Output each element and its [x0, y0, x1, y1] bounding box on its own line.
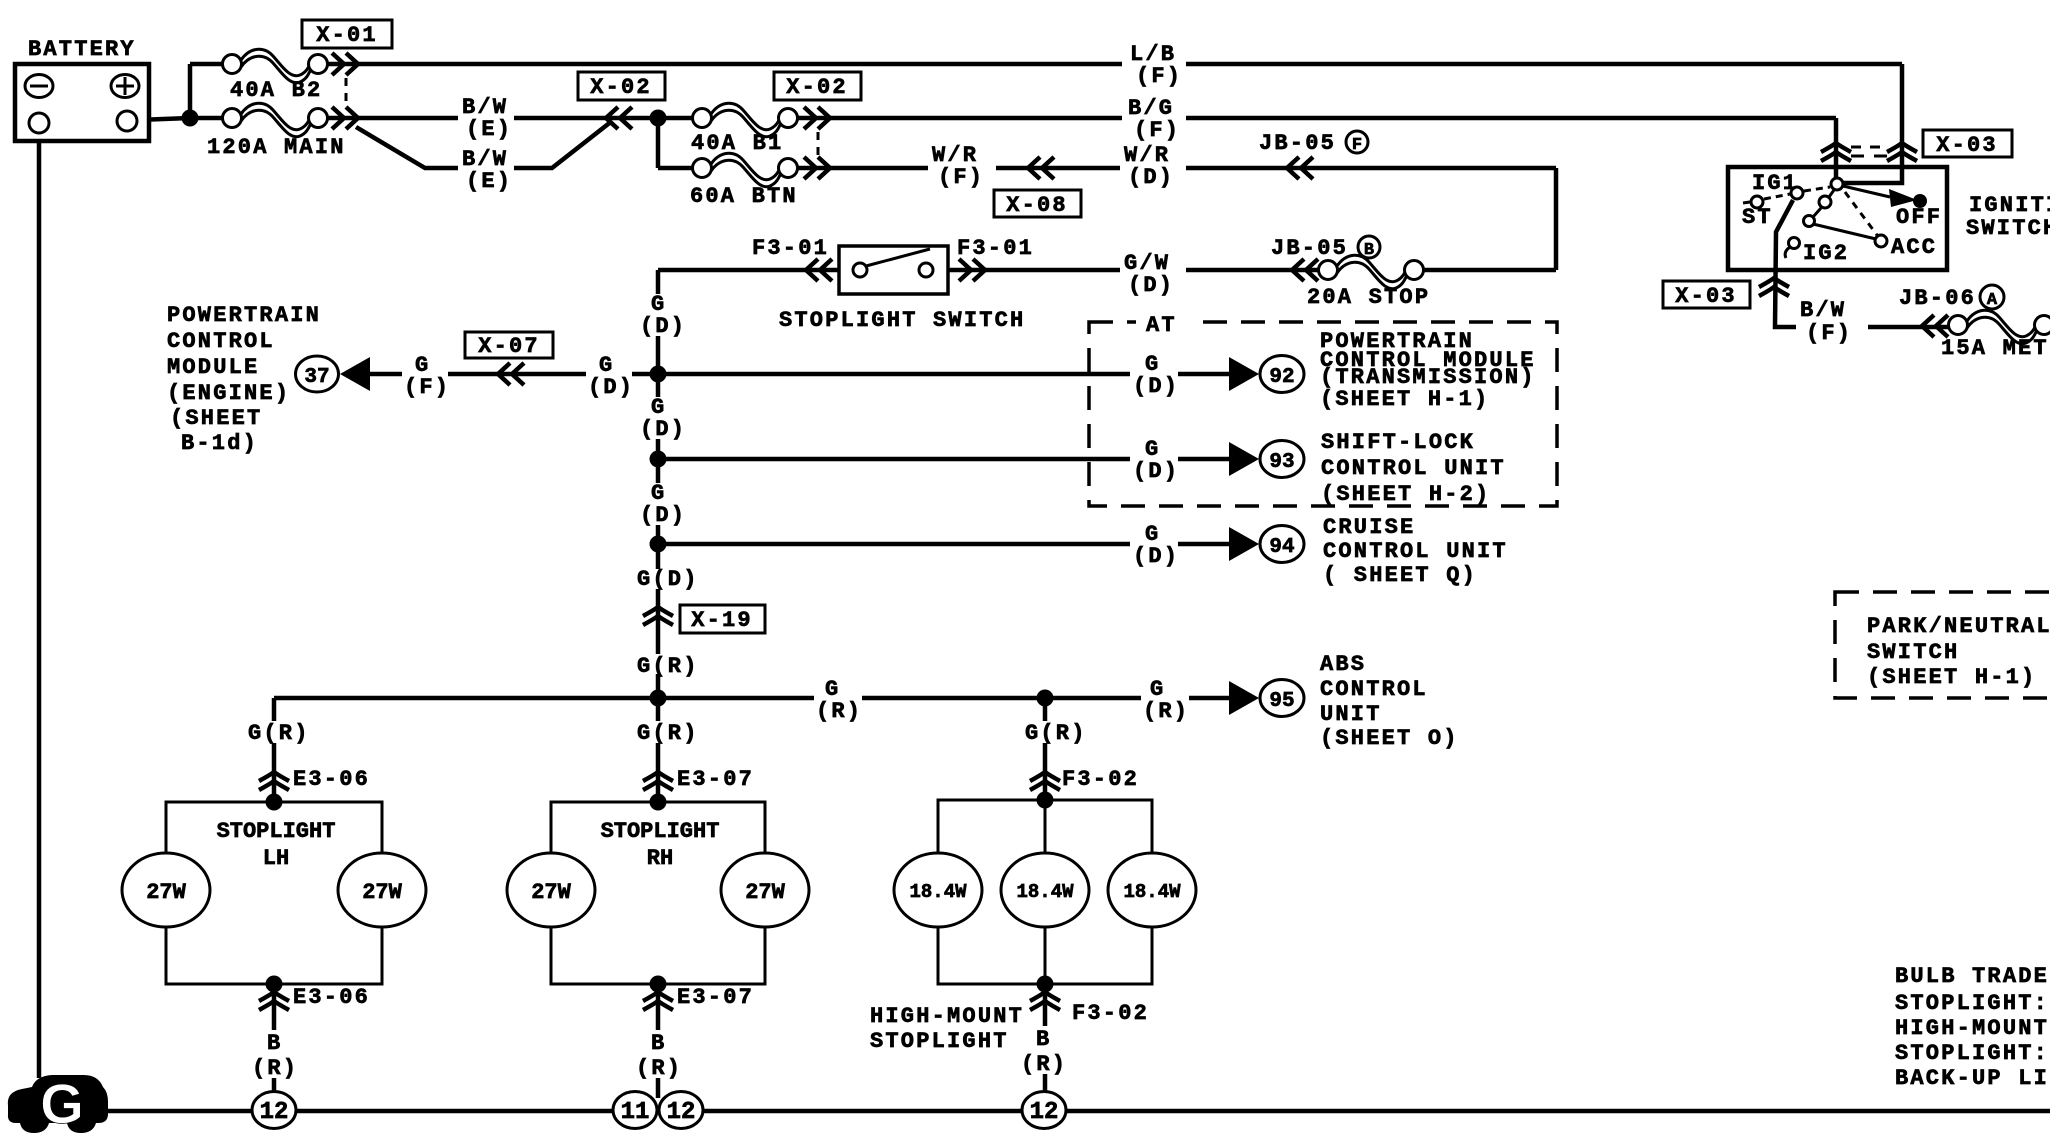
- wire: row A (L/B): [190, 62, 224, 67]
- svg-text:92: 92: [1269, 366, 1294, 389]
- connector X-02 label left: [578, 72, 665, 100]
- connector JB-06 A: [1899, 285, 2004, 337]
- bulb trade note: [1895, 964, 2049, 1091]
- svg-text:27W: 27W: [362, 880, 402, 905]
- junction G(R) row 95 center: [650, 690, 667, 707]
- connector X-03 chevron bottom: [1759, 278, 1789, 296]
- node B (R) x1045: [1018, 1026, 1070, 1077]
- svg-text:(F): (F): [404, 375, 450, 400]
- svg-text:G(D): G(D): [637, 567, 699, 592]
- connector X-08 chevron: [1028, 157, 1054, 179]
- svg-text:SWITCH: SWITCH: [1966, 216, 2050, 241]
- svg-text:X-02: X-02: [590, 75, 652, 100]
- svg-text:G(R): G(R): [1025, 721, 1087, 746]
- wire: vertical junction to 60A BTN row: [656, 118, 661, 168]
- wire: left branch down to stoplight LH: [272, 698, 277, 802]
- connector JB-05 F chevron: [1259, 131, 1368, 179]
- svg-text:HIGH-MOUNT: HIGH-MOUNT: [870, 1004, 1024, 1029]
- svg-text:95: 95: [1269, 690, 1294, 713]
- svg-text:12: 12: [667, 1099, 696, 1126]
- svg-text:STOPLIGHT:: STOPLIGHT:: [1895, 1041, 2049, 1066]
- wire: ignition IG1 lever down to X-03 and B/W row: [1775, 200, 1798, 327]
- svg-text:G(R): G(R): [637, 721, 699, 746]
- OFF contact with arrow: [1843, 186, 1890, 197]
- wire: contact M2 to ACC: [1813, 224, 1876, 239]
- svg-text:STOPLIGHT:: STOPLIGHT:: [1895, 991, 2049, 1016]
- node B/W (F) ignition: [1796, 298, 1868, 346]
- svg-text:SWITCH: SWITCH: [1867, 640, 1959, 665]
- junction high-mount top: [1037, 792, 1054, 809]
- terminal IG1: [1791, 187, 1803, 199]
- svg-text:G(R): G(R): [637, 654, 699, 679]
- svg-text:X-19: X-19: [691, 608, 753, 633]
- junction G(R) high-mount branch: [1037, 690, 1054, 707]
- wire: L/B vertical to ignition switch: [1843, 64, 1902, 183]
- svg-text:F3-01: F3-01: [957, 236, 1034, 261]
- svg-text:(SHEET: (SHEET: [170, 406, 262, 431]
- fuse 40A B2: [223, 49, 328, 103]
- svg-text:X-01: X-01: [316, 23, 378, 48]
- junction stoplight RH top: [650, 794, 667, 811]
- connector E3-06 upper: [259, 767, 370, 792]
- svg-text:(SHEET H-1): (SHEET H-1): [1867, 665, 2036, 690]
- wire: row C (60A BTN - W/R): [658, 166, 694, 171]
- ground terminals 11 12 (RH): [613, 1092, 657, 1129]
- node G (D) x658 seg1: [636, 292, 686, 339]
- svg-text:G: G: [40, 1072, 84, 1135]
- node G (D) before 93: [1130, 437, 1179, 484]
- svg-text:27W: 27W: [745, 880, 785, 905]
- terminal 92 PCM transmission: [1229, 329, 1536, 412]
- svg-text:18.4W: 18.4W: [1123, 881, 1181, 903]
- svg-text:(D): (D): [640, 314, 686, 339]
- svg-text:(F): (F): [1134, 118, 1180, 143]
- junction at battery feed: [182, 110, 199, 127]
- svg-text:(D): (D): [1133, 374, 1179, 399]
- wire: branch up to 40A B2 row: [188, 64, 193, 118]
- junction G(D) row 94: [650, 536, 667, 553]
- svg-text:(R): (R): [816, 699, 862, 724]
- connector X-02 label right: [774, 72, 861, 100]
- svg-text:( SHEET Q): ( SHEET Q): [1323, 563, 1477, 588]
- svg-text:94: 94: [1269, 536, 1294, 559]
- svg-text:BACK-UP LI: BACK-UP LI: [1895, 1066, 2049, 1091]
- svg-text:BATTERY: BATTERY: [28, 37, 136, 62]
- svg-text:120A MAIN: 120A MAIN: [207, 135, 346, 160]
- svg-text:X-03: X-03: [1675, 284, 1737, 309]
- svg-text:(SHEET H-1): (SHEET H-1): [1320, 387, 1489, 412]
- stoplight RH box: [507, 802, 809, 984]
- svg-text:20A STOP: 20A STOP: [1307, 285, 1430, 310]
- svg-text:(F): (F): [938, 165, 984, 190]
- svg-text:HIGH-MOUNT: HIGH-MOUNT: [1895, 1016, 2049, 1041]
- svg-text:X-07: X-07: [478, 334, 540, 359]
- svg-text:(R): (R): [1021, 1052, 1067, 1077]
- svg-text:CONTROL UNIT: CONTROL UNIT: [1323, 539, 1508, 564]
- svg-text:18.4W: 18.4W: [909, 881, 967, 903]
- svg-text:CRUISE: CRUISE: [1323, 515, 1415, 540]
- connector X-03 label top: [1923, 130, 2012, 158]
- wire: right branch down to high-mount: [1043, 698, 1048, 800]
- svg-text:B/W: B/W: [1800, 298, 1846, 323]
- svg-text:27W: 27W: [531, 880, 571, 905]
- node B (R) x658: [632, 1030, 684, 1081]
- fuse 20A STOP: [1307, 255, 1430, 310]
- junction at 40A B1 / 60A BTN split: [650, 110, 667, 127]
- node G (D) row 374: [586, 353, 634, 400]
- node L/B (F): [1124, 42, 1186, 89]
- svg-text:18.4W: 18.4W: [1016, 881, 1074, 903]
- node G(R) x658 lower: [634, 721, 702, 746]
- stoplight LH box: [122, 802, 426, 984]
- svg-text:SHIFT-LOCK: SHIFT-LOCK: [1321, 430, 1475, 455]
- svg-text:JB-05: JB-05: [1271, 236, 1348, 261]
- ground G car symbol: [8, 1072, 108, 1135]
- connector JB-05 B chevron: [1271, 236, 1380, 281]
- svg-text:AT: AT: [1146, 313, 1177, 338]
- dashed common-ACC: [1845, 192, 1877, 235]
- dashed ST-IG1: [1764, 194, 1790, 199]
- fuse 120A MAIN: [207, 103, 346, 160]
- fuse 60A BTN: [690, 153, 798, 209]
- svg-text:12: 12: [260, 1099, 289, 1126]
- svg-text:11: 11: [621, 1099, 650, 1126]
- junction high-mount bottom: [1037, 976, 1054, 993]
- wire: row 544 (94): [658, 542, 1229, 547]
- node G(D) above X-19: [634, 567, 702, 592]
- svg-text:B: B: [1364, 241, 1374, 260]
- terminal 94 cruise: [1229, 515, 1508, 588]
- svg-text:MODULE: MODULE: [167, 355, 259, 380]
- svg-text:40A B1: 40A B1: [691, 131, 783, 156]
- svg-text:F3-02: F3-02: [1072, 1001, 1149, 1026]
- connector E3-07 upper: [643, 767, 754, 792]
- svg-text:(SHEET O): (SHEET O): [1320, 726, 1459, 751]
- svg-text:(E): (E): [466, 117, 512, 142]
- svg-text:STOPLIGHT: STOPLIGHT: [870, 1029, 1009, 1054]
- connector X-03 label bottom: [1663, 281, 1750, 309]
- svg-text:UNIT: UNIT: [1320, 702, 1382, 727]
- svg-text:B-1d): B-1d): [181, 431, 258, 456]
- svg-text:A: A: [1987, 291, 1998, 310]
- wire: G/W row (stoplight switch row): [1421, 268, 1556, 273]
- fuse 15A METER: [1941, 310, 2050, 361]
- svg-text:(R): (R): [636, 1056, 682, 1081]
- svg-text:93: 93: [1269, 451, 1294, 474]
- node G (R) row698 left: [814, 677, 862, 724]
- node G(R) below X-19: [634, 654, 702, 679]
- node G (F) row 374: [402, 353, 450, 400]
- svg-text:F3-01: F3-01: [752, 236, 829, 261]
- wire: row B (B/W E - 40A B1 - B/G): [190, 116, 224, 121]
- svg-text:F3-02: F3-02: [1062, 767, 1139, 792]
- high-mount stoplight box: [870, 800, 1196, 1054]
- connector X-01 chevrons: [332, 53, 358, 129]
- AT dashed box: [1089, 312, 1557, 506]
- svg-text:(D): (D): [640, 503, 686, 528]
- node B/W (E) lower: [458, 147, 514, 194]
- wire: B/W (F) row to 15A METER: [1866, 325, 1948, 330]
- svg-text:F: F: [1352, 136, 1362, 155]
- svg-text:(D): (D): [640, 417, 686, 442]
- svg-text:STOPLIGHT: STOPLIGHT: [217, 819, 336, 844]
- svg-text:(D): (D): [588, 375, 634, 400]
- wire: row 698 (G(R) / ABS 95): [274, 696, 1229, 701]
- connector X-19 label: [680, 605, 765, 633]
- svg-text:E3-07: E3-07: [677, 767, 754, 792]
- svg-text:(R): (R): [252, 1056, 298, 1081]
- node G/W (D): [1122, 251, 1184, 298]
- wire: battery negative vertical: [37, 133, 42, 1078]
- junction stoplight LH top: [266, 794, 283, 811]
- node G (R) row698 right: [1141, 677, 1189, 724]
- svg-text:POWERTRAIN: POWERTRAIN: [167, 303, 321, 328]
- svg-text:40A B2: 40A B2: [230, 78, 322, 103]
- node G (D) before 92: [1130, 352, 1179, 399]
- svg-text:15A METE: 15A METE: [1941, 336, 2050, 361]
- svg-text:PARK/NEUTRAL: PARK/NEUTRAL: [1867, 614, 2050, 639]
- label IGNITION SWITCH: [1966, 193, 2050, 241]
- svg-text:STOPLIGHT SWITCH: STOPLIGHT SWITCH: [779, 308, 1025, 333]
- ground terminal 12 (LH): [252, 1092, 296, 1129]
- mid contact 2: [1804, 216, 1815, 227]
- terminal 93 shift-lock: [1229, 430, 1506, 507]
- connector F3-02 upper: [1030, 767, 1139, 792]
- wire: row 459 (93): [658, 457, 1229, 462]
- svg-text:27W: 27W: [146, 880, 186, 905]
- park/neutral switch dashed box: [1835, 592, 2050, 698]
- connector E3-07 lower: [643, 985, 754, 1010]
- node B (R) x274: [248, 1030, 300, 1081]
- svg-text:(D): (D): [1133, 459, 1179, 484]
- svg-text:E3-06: E3-06: [293, 767, 370, 792]
- node G(R) x1045: [1022, 721, 1090, 746]
- connector X-07 chevron: [498, 363, 524, 385]
- svg-text:(SHEET H-2): (SHEET H-2): [1321, 482, 1490, 507]
- junction G(D) row 37/92: [650, 366, 667, 383]
- svg-text:CONTROL UNIT: CONTROL UNIT: [1321, 456, 1506, 481]
- svg-text:(F): (F): [1806, 321, 1852, 346]
- svg-text:(R): (R): [1143, 699, 1189, 724]
- svg-text:STOPLIGHT: STOPLIGHT: [601, 819, 720, 844]
- node W/R (D): [1122, 143, 1184, 190]
- node B/G (F): [1124, 96, 1186, 143]
- junction stoplight RH bottom: [650, 976, 667, 993]
- svg-text:(ENGINE): (ENGINE): [167, 381, 290, 406]
- wire: vertical main G(D) branch x=658: [656, 270, 661, 802]
- svg-text:ST: ST: [1742, 205, 1773, 230]
- connector X-19 chevron: [643, 607, 673, 625]
- svg-text:E3-07: E3-07: [677, 985, 754, 1010]
- terminal 95 ABS: [1229, 652, 1459, 751]
- svg-text:CONTROL: CONTROL: [167, 329, 275, 354]
- node G (D) x658 seg3: [636, 481, 686, 528]
- svg-text:JB-06: JB-06: [1899, 286, 1976, 311]
- node B/W (E) upper: [458, 95, 514, 142]
- terminal IG2: [1789, 238, 1800, 249]
- svg-text:LH: LH: [263, 846, 289, 871]
- stoplight switch F3-01: [752, 236, 1034, 333]
- node G(R) x274: [245, 721, 313, 746]
- connector X-01 label: [302, 20, 392, 48]
- node W/R (F): [930, 143, 994, 190]
- connector F3-02 lower: [1030, 992, 1149, 1026]
- wire: B/W (E) lower path diagonals: [356, 121, 612, 168]
- svg-text:ACC: ACC: [1891, 235, 1937, 260]
- wire: ground bus: [100, 1109, 2050, 1114]
- svg-text:CONTROL: CONTROL: [1320, 677, 1428, 702]
- wire: row 374 (37 / 92): [370, 372, 1229, 377]
- svg-text:G(R): G(R): [248, 721, 310, 746]
- svg-text:JB-05: JB-05: [1259, 131, 1336, 156]
- svg-text:X-08: X-08: [1006, 193, 1068, 218]
- dashed IG1-common: [1804, 187, 1830, 191]
- svg-text:(D): (D): [1128, 165, 1174, 190]
- svg-text:(D): (D): [1133, 544, 1179, 569]
- svg-text:60A BTN: 60A BTN: [690, 184, 798, 209]
- svg-text:RH: RH: [647, 846, 673, 871]
- common terminal: [1831, 178, 1843, 190]
- mid contact 1: [1819, 196, 1831, 208]
- connector X-07 label: [465, 332, 553, 359]
- svg-text:(D): (D): [1128, 273, 1174, 298]
- battery: [15, 37, 149, 141]
- svg-text:B: B: [267, 1031, 282, 1056]
- connector X-03 chevrons top: [1821, 143, 1917, 161]
- ground terminal 12 (high-mount): [1022, 1092, 1066, 1129]
- fuse 40A B1: [691, 103, 798, 156]
- svg-text:37: 37: [304, 366, 329, 389]
- connector X-08 label: [994, 190, 1081, 218]
- terminal 37 PCM engine: [167, 303, 370, 456]
- wire: battery positive to junction: [137, 118, 190, 120]
- connector X-02 chevrons: [606, 107, 830, 179]
- svg-text:12: 12: [1030, 1099, 1059, 1126]
- svg-text:B: B: [1036, 1027, 1051, 1052]
- svg-text:BULB TRADE: BULB TRADE: [1895, 964, 2049, 989]
- node G (D) before 94: [1130, 522, 1179, 569]
- node G (D) x658 seg2: [636, 395, 686, 442]
- svg-text:B: B: [651, 1031, 666, 1056]
- svg-text:IG1: IG1: [1752, 171, 1798, 196]
- svg-text:(E): (E): [466, 169, 512, 194]
- svg-text:(F): (F): [1136, 64, 1182, 89]
- svg-text:IGNITION: IGNITION: [1969, 193, 2050, 218]
- ignition switch box: [1728, 167, 1947, 270]
- junction stoplight LH bottom: [266, 976, 283, 993]
- svg-text:X-02: X-02: [786, 75, 848, 100]
- svg-text:OFF: OFF: [1896, 205, 1942, 230]
- terminal ST: [1751, 196, 1763, 208]
- wire: B/G vertical to ignition switch: [1834, 118, 1839, 180]
- svg-text:ABS: ABS: [1320, 652, 1366, 677]
- wire: vertical W/R to G/W row: [1554, 168, 1559, 270]
- terminal ACC: [1875, 235, 1887, 247]
- wire: bottom verticals to ground bus: [272, 984, 277, 1098]
- svg-text:E3-06: E3-06: [293, 985, 370, 1010]
- junction G(D) row 93: [650, 451, 667, 468]
- connector E3-06 lower: [259, 985, 370, 1010]
- svg-text:X-03: X-03: [1936, 133, 1998, 158]
- svg-text:IG2: IG2: [1803, 241, 1849, 266]
